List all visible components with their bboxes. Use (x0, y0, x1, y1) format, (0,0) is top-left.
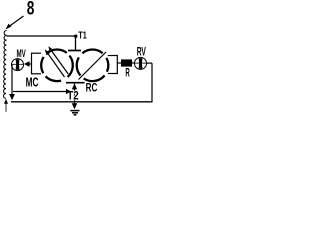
bottom brush bar (66, 82, 85, 84)
wire R to RV (132, 62, 134, 64)
svg-text:MV: MV (17, 48, 27, 60)
bottom lead line pointing up at border (4, 99, 8, 112)
svg-text:8: 8 (27, 0, 35, 20)
wire bracket to MV with arrow (24, 61, 32, 67)
resistor R (121, 59, 132, 66)
ground (70, 111, 79, 115)
wire T2 down (74, 84, 76, 102)
wire bracket to R (117, 62, 121, 64)
svg-text:MC: MC (26, 75, 39, 90)
vibrator RV (135, 57, 147, 69)
wire T1 down (75, 36, 77, 51)
svg-text:T1: T1 (78, 31, 87, 42)
right brush bracket (108, 55, 118, 74)
diagonal brush axis inside RC (79, 52, 107, 80)
down arrow to ground (72, 102, 78, 110)
wire MV to T2 with right arrow (13, 89, 72, 94)
top wire (7, 35, 76, 37)
up arrow at T2 (72, 84, 77, 90)
svg-text:RC: RC (86, 80, 98, 94)
machine MC circle (41, 49, 73, 81)
lead line for 8 (6, 16, 24, 30)
top brush bar (68, 50, 81, 52)
svg-text:R: R (125, 67, 130, 79)
bottom return wire (11, 101, 152, 103)
left brush bracket (32, 53, 42, 75)
vibrator MV (12, 59, 24, 71)
wavy border of device 8 (4, 30, 7, 98)
wire MV down with arrow (9, 64, 15, 100)
machine RC circle (77, 50, 109, 82)
wire RV right and down (147, 63, 152, 102)
node T1 (74, 35, 77, 38)
svg-text:RV: RV (137, 45, 146, 59)
double arrow inside MC (45, 46, 68, 77)
